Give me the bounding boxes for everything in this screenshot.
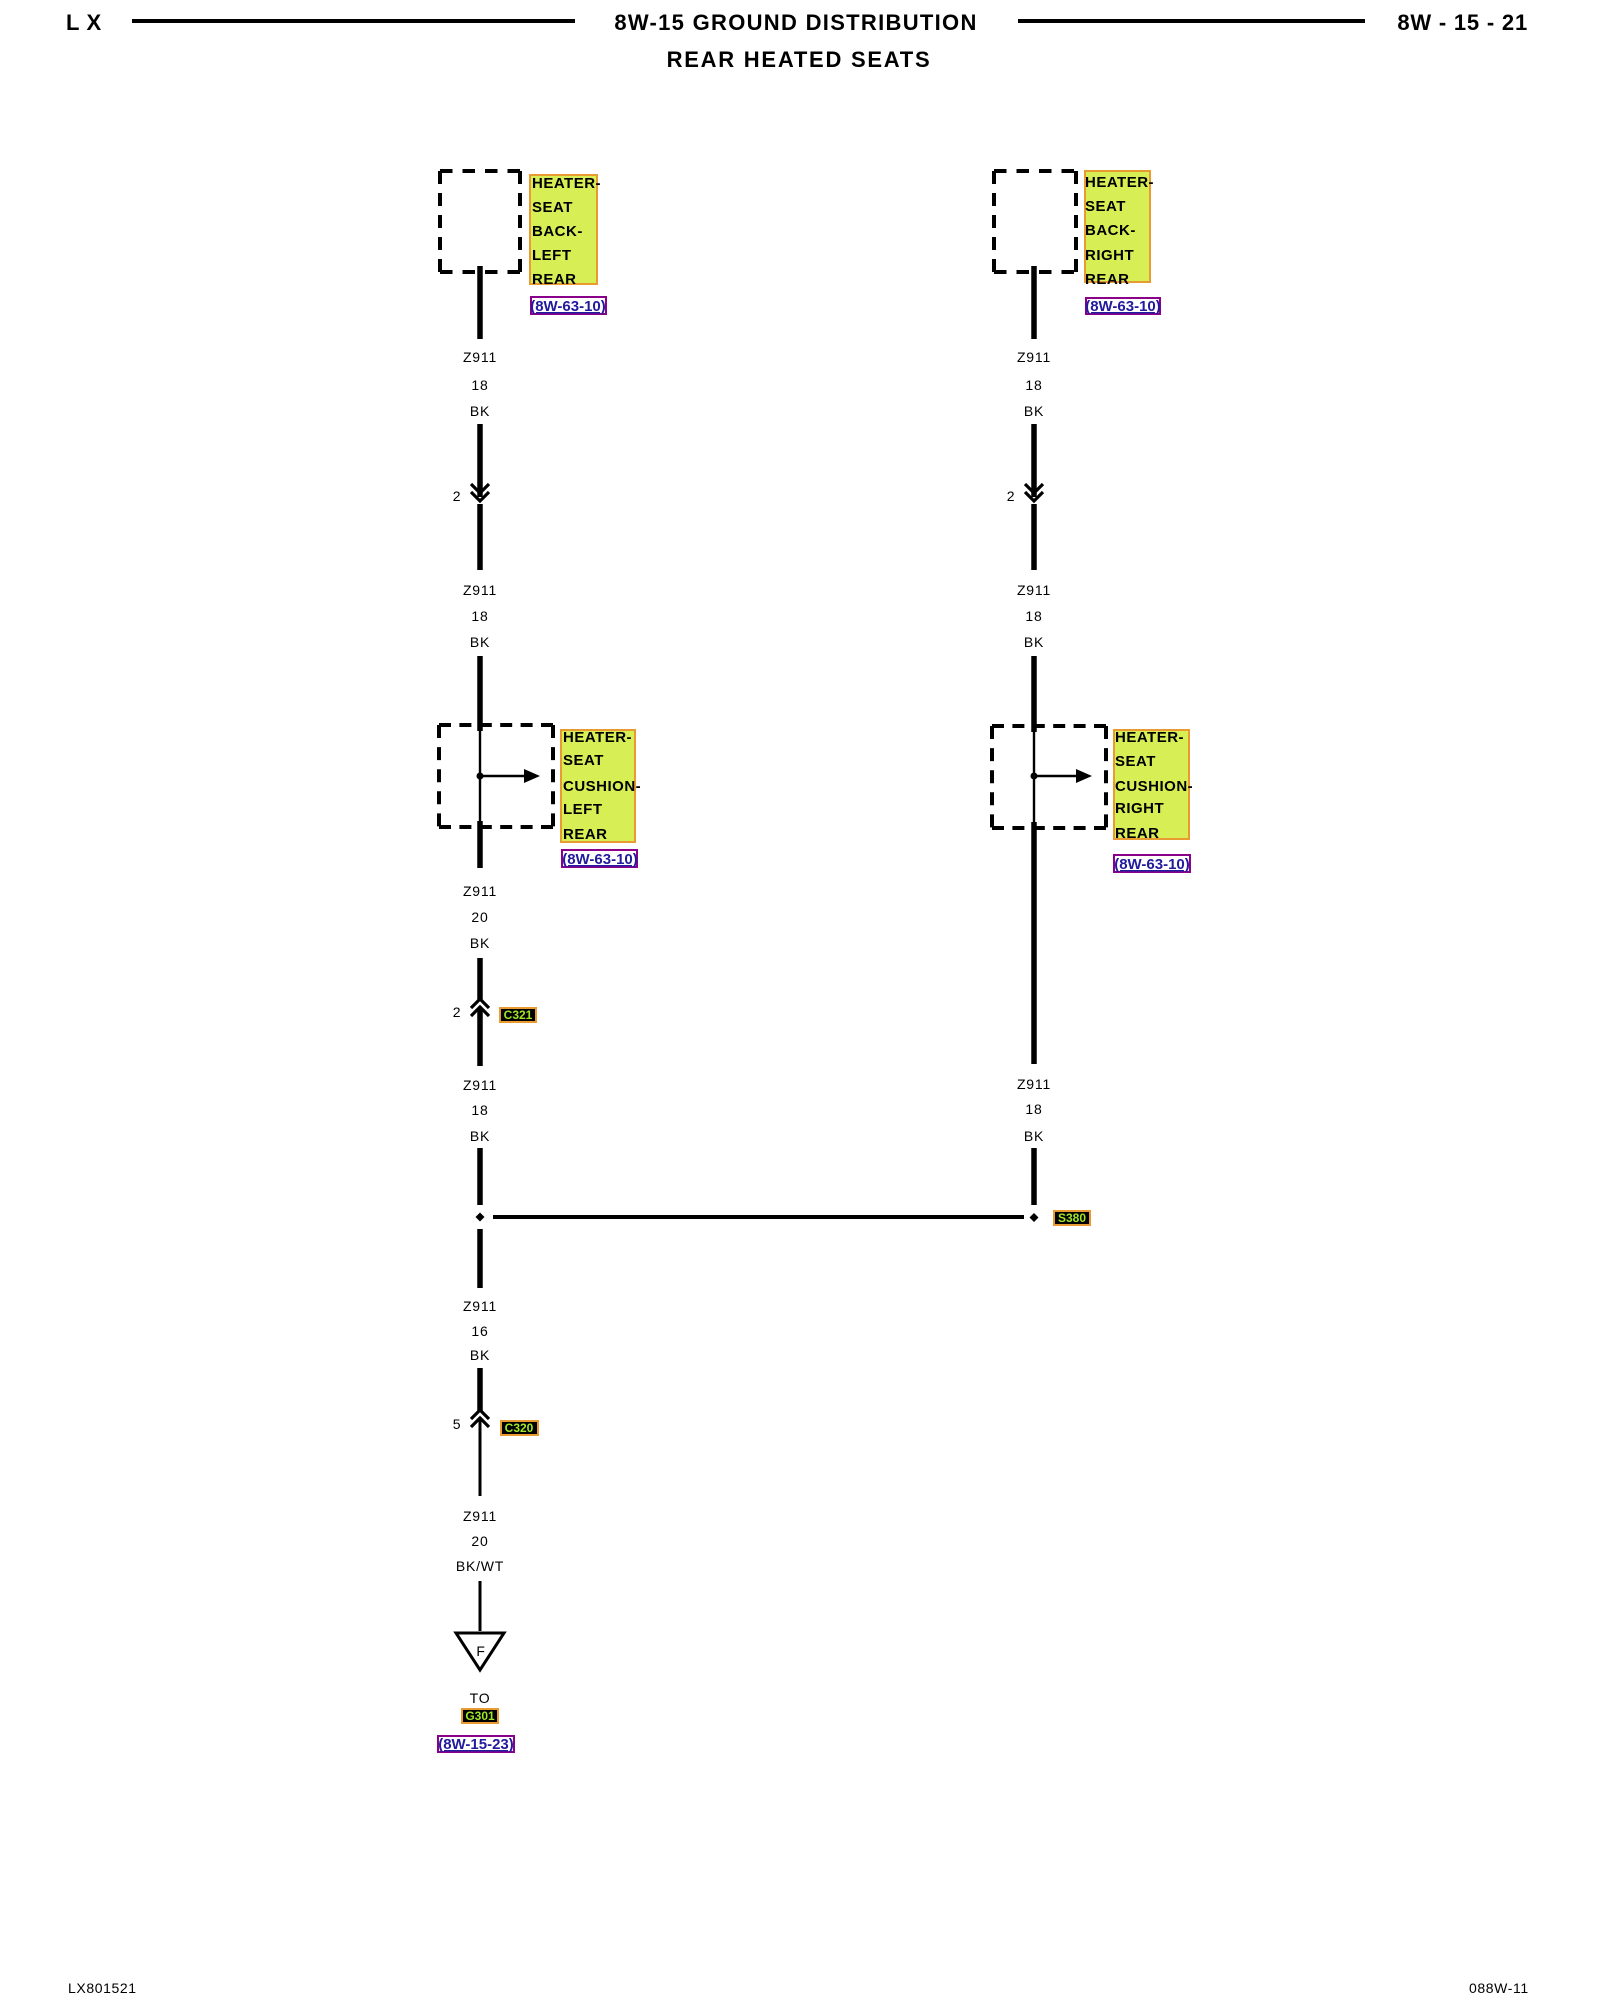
svg-text:Z911: Z911 <box>1017 1076 1051 1092</box>
svg-text:(8W-15-23): (8W-15-23) <box>438 1736 514 1753</box>
splice label S380 <box>1054 1211 1090 1225</box>
svg-text:RIGHT: RIGHT <box>1085 247 1134 264</box>
svg-text:BK: BK <box>1024 1128 1044 1144</box>
wire label Z911 18 BK <box>463 582 497 650</box>
link 8W-63-10 back-right <box>1085 298 1161 315</box>
in-line connector 2 (left, pin 2) <box>453 484 489 504</box>
svg-text:REAR: REAR <box>1085 271 1130 288</box>
header rule right <box>1018 19 1365 23</box>
svg-text:CUSHION-: CUSHION- <box>1115 778 1193 795</box>
link 8W-63-10 back-left <box>530 297 606 315</box>
svg-text:REAR: REAR <box>1115 825 1160 842</box>
wire label Z911 18 BK <box>1017 582 1051 650</box>
svg-text:S380: S380 <box>1058 1211 1086 1225</box>
ground symbol F <box>456 1633 504 1670</box>
wire <box>1031 1148 1037 1205</box>
wire <box>477 1148 483 1205</box>
svg-text:REAR: REAR <box>532 271 577 288</box>
junction dot cushion-left <box>477 773 484 780</box>
svg-text:Z911: Z911 <box>1017 582 1051 598</box>
svg-text:HEATER-: HEATER- <box>1115 729 1184 746</box>
in-line connector 2 (right, pin 2) <box>1007 484 1043 504</box>
ground label G301 <box>462 1709 498 1723</box>
wire <box>477 958 483 1001</box>
wire <box>477 656 483 731</box>
svg-text:REAR: REAR <box>563 826 608 843</box>
svg-text:HEATER-: HEATER- <box>1085 174 1154 191</box>
pin wire through cushion-left box <box>479 725 481 827</box>
svg-text:18: 18 <box>471 1102 488 1118</box>
long wire below cushion-right <box>1031 822 1037 1064</box>
svg-text:SEAT: SEAT <box>563 752 604 769</box>
connector C321 (in-line, pin 2) <box>453 999 489 1020</box>
svg-text:2: 2 <box>453 1004 462 1020</box>
svg-text:LX801521: LX801521 <box>68 1980 137 1996</box>
wire below cushion-left <box>477 821 483 868</box>
connector label C320 <box>501 1421 538 1435</box>
wire below back-right <box>1031 266 1037 339</box>
svg-text:BACK-: BACK- <box>532 223 583 240</box>
wire label Z911 18 BK <box>463 349 497 419</box>
svg-text:BK: BK <box>470 403 490 419</box>
link 8W-63-10 cushion-right <box>1114 855 1190 873</box>
svg-text:LX: LX <box>66 10 108 35</box>
svg-text:SEAT: SEAT <box>532 199 573 216</box>
svg-text:(8W-63-10): (8W-63-10) <box>530 298 606 315</box>
header rule left <box>132 19 575 23</box>
connector box HEATER-SEAT BACK-LEFT REAR (dashed) <box>440 171 520 272</box>
svg-text:BK: BK <box>470 1347 490 1363</box>
svg-text:18: 18 <box>471 608 488 624</box>
connector box HEATER-SEAT BACK-RIGHT REAR (dashed) <box>994 171 1076 272</box>
svg-text:BK: BK <box>1024 634 1044 650</box>
wire label Z911 20 BK/WT <box>456 1508 504 1574</box>
svg-text:8W-15 GROUND DISTRIBUTION: 8W-15 GROUND DISTRIBUTION <box>614 10 977 35</box>
wire label Z911 18 BK <box>463 1077 497 1144</box>
svg-text:8W - 15 - 21: 8W - 15 - 21 <box>1397 10 1528 35</box>
svg-text:(8W-63-10): (8W-63-10) <box>562 851 638 868</box>
wire <box>477 1368 483 1412</box>
wire label Z911 18 BK <box>1017 349 1051 419</box>
connector label C321 <box>500 1008 536 1022</box>
svg-text:TO: TO <box>470 1690 491 1706</box>
svg-text:(8W-63-10): (8W-63-10) <box>1114 856 1190 873</box>
svg-text:16: 16 <box>471 1323 488 1339</box>
svg-text:Z911: Z911 <box>463 1508 497 1524</box>
svg-text:20: 20 <box>471 909 488 925</box>
svg-text:Z911: Z911 <box>463 1077 497 1093</box>
svg-text:CUSHION-: CUSHION- <box>563 778 641 795</box>
svg-text:Z911: Z911 <box>463 1298 497 1314</box>
svg-text:C321: C321 <box>504 1008 533 1022</box>
svg-text:F: F <box>476 1643 485 1659</box>
svg-text:2: 2 <box>453 488 462 504</box>
pin wire through cushion-right box <box>1033 726 1035 828</box>
svg-text:Z911: Z911 <box>463 582 497 598</box>
arrow to label (cushion-left) <box>480 769 540 783</box>
arrow to label (cushion-right) <box>1034 769 1092 783</box>
svg-text:BK: BK <box>470 935 490 951</box>
svg-text:BACK-: BACK- <box>1085 222 1136 239</box>
wire label Z911 16 BK <box>463 1298 497 1363</box>
svg-text:Z911: Z911 <box>1017 349 1051 365</box>
connector C320 (in-line, pin 5) <box>453 1410 489 1432</box>
svg-text:SEAT: SEAT <box>1085 198 1126 215</box>
svg-text:HEATER-: HEATER- <box>563 729 632 746</box>
svg-text:18: 18 <box>1025 608 1042 624</box>
svg-text:18: 18 <box>1025 377 1042 393</box>
wire thin below C320 <box>479 1420 482 1496</box>
svg-text:(8W-63-10): (8W-63-10) <box>1085 298 1161 315</box>
label HEATER-SEAT CUSHION-LEFT REAR <box>561 729 641 843</box>
svg-text:LEFT: LEFT <box>532 247 572 264</box>
splice bus wire S380 <box>493 1215 1024 1219</box>
splice junction diamond left <box>476 1213 485 1222</box>
splice S380 diamond <box>1030 1213 1039 1222</box>
wire label Z911 18 BK <box>1017 1076 1051 1144</box>
svg-text:C320: C320 <box>505 1421 534 1435</box>
label HEATER-SEAT BACK-RIGHT REAR <box>1085 171 1154 288</box>
svg-text:BK: BK <box>470 634 490 650</box>
link 8W-15-23 <box>438 1736 514 1753</box>
connector box HEATER-SEAT CUSHION-LEFT REAR (dashed) <box>439 725 553 827</box>
junction dot cushion-right <box>1031 773 1038 780</box>
svg-text:Z911: Z911 <box>463 349 497 365</box>
svg-text:RIGHT: RIGHT <box>1115 800 1164 817</box>
wire <box>477 424 483 497</box>
svg-text:2: 2 <box>1007 488 1016 504</box>
svg-text:18: 18 <box>1025 1101 1042 1117</box>
svg-text:HEATER-: HEATER- <box>532 175 601 192</box>
svg-text:G301: G301 <box>465 1709 495 1723</box>
wire Z911 18 BK (back-left down) <box>477 266 483 339</box>
wire <box>1031 424 1037 497</box>
wire <box>477 1009 483 1066</box>
wire <box>477 504 483 570</box>
connector box HEATER-SEAT CUSHION-RIGHT REAR (dashed) <box>992 726 1106 828</box>
wire below junction <box>477 1229 483 1288</box>
svg-text:BK: BK <box>470 1128 490 1144</box>
svg-text:REAR HEATED SEATS: REAR HEATED SEATS <box>667 47 932 72</box>
svg-text:20: 20 <box>471 1533 488 1549</box>
wire <box>1031 656 1037 732</box>
svg-text:Z911: Z911 <box>463 883 497 899</box>
svg-text:BK/WT: BK/WT <box>456 1558 504 1574</box>
wire thin to ground <box>479 1581 482 1631</box>
wire <box>1031 504 1037 570</box>
label HEATER-SEAT BACK-LEFT REAR <box>530 175 601 288</box>
svg-text:BK: BK <box>1024 403 1044 419</box>
link 8W-63-10 cushion-left <box>562 850 638 868</box>
svg-text:18: 18 <box>471 377 488 393</box>
svg-text:088W-11: 088W-11 <box>1469 1980 1529 1996</box>
svg-text:5: 5 <box>453 1416 462 1432</box>
label HEATER-SEAT CUSHION-RIGHT REAR <box>1114 729 1193 842</box>
svg-text:LEFT: LEFT <box>563 801 603 818</box>
svg-text:SEAT: SEAT <box>1115 753 1156 770</box>
wire label Z911 20 BK <box>463 883 497 951</box>
